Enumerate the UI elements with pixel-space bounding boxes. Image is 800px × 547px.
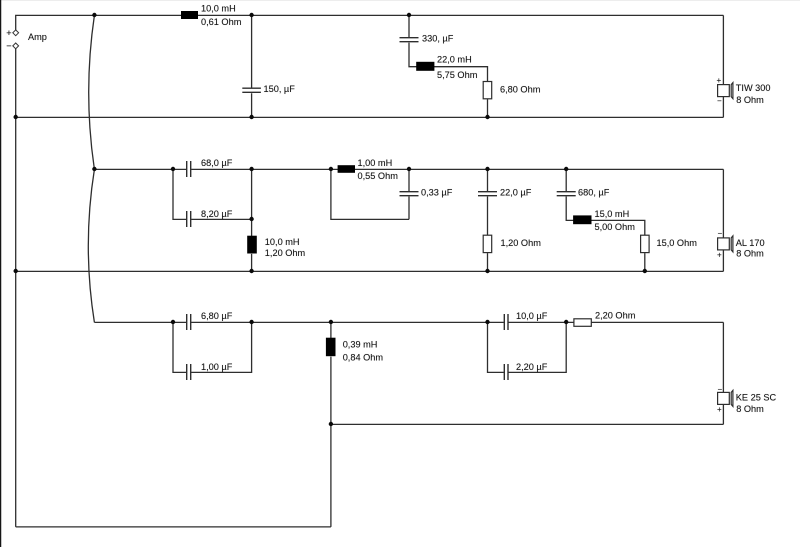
resistor 1,20 Ohm (midrange shunt RC): [483, 235, 541, 271]
capacitor 680 µF (midrange RLC notch): [557, 169, 645, 235]
wire right vertical tweeter branch: [722, 322, 724, 424]
node tweeter rail / 0,39mH: [329, 320, 333, 324]
svg-text:8 Ohm: 8 Ohm: [736, 95, 764, 105]
node top rail / curve junction: [92, 13, 96, 17]
node mid rail / 680µF: [564, 167, 568, 171]
capacitor 22,0 µF (midrange shunt RC): [478, 169, 532, 235]
node top rail / 150µF: [249, 13, 253, 17]
svg-text:TIW 300: TIW 300: [736, 83, 771, 93]
wire curved feed from top rail down to mid and tweeter rails: [88, 15, 94, 322]
inductor 10,0 mH 1,20 Ohm (midrange shunt): [247, 169, 305, 271]
svg-text:22,0 µF: 22,0 µF: [500, 188, 532, 198]
svg-text:8,20 µF: 8,20 µF: [201, 209, 233, 219]
svg-text:0,84 Ohm: 0,84 Ohm: [343, 353, 384, 363]
inductor 22,0 mH 5,75 Ohm (woofer RLC notch): [416, 55, 477, 81]
svg-text:−: −: [718, 385, 723, 394]
svg-text:68,0 µF: 68,0 µF: [201, 158, 233, 168]
wire tweeter return rail: [331, 423, 724, 425]
capacitor 6,80 µF (tweeter series): [187, 311, 233, 330]
wire top rail from Amp+ to right vertical: [16, 15, 724, 30]
node mid return / 10mH: [249, 269, 253, 273]
svg-text:0,55 Ohm: 0,55 Ohm: [358, 171, 399, 181]
node tweeter return / shunt vertical: [329, 422, 333, 426]
svg-text:680, µF: 680, µF: [578, 188, 610, 198]
svg-text:+: +: [717, 405, 722, 414]
capacitor 2,20 µF (parallel with 10,0 µF): [488, 322, 567, 380]
svg-text:6,80 µF: 6,80 µF: [201, 311, 233, 321]
svg-text:15,0 Ohm: 15,0 Ohm: [657, 238, 698, 248]
capacitor 1,00 µF (parallel with 6,80 µF): [173, 322, 252, 380]
svg-text:15,0 mH: 15,0 mH: [595, 209, 630, 219]
svg-text:+: +: [717, 250, 722, 259]
node woofer return / amp minus: [14, 115, 18, 119]
node woofer return / 6,80 Ohm: [485, 115, 489, 119]
capacitor 8,20 µF (parallel with 68,0 µF): [173, 169, 252, 227]
svg-text:5,00 Ohm: 5,00 Ohm: [595, 222, 636, 232]
wire right vertical woofer branch: [722, 15, 724, 117]
svg-text:1,20 Ohm: 1,20 Ohm: [265, 248, 306, 258]
svg-text:5,75 Ohm: 5,75 Ohm: [437, 70, 478, 80]
svg-text:2,20 Ohm: 2,20 Ohm: [595, 311, 636, 321]
node mid rail / 68µF left: [171, 167, 175, 171]
inductor 0,39 mH 0,84 Ohm (tweeter shunt): [326, 322, 383, 362]
Amp + terminal: [13, 30, 19, 36]
svg-text:10,0 µF: 10,0 µF: [516, 311, 548, 321]
svg-text:AL 170: AL 170: [736, 238, 765, 248]
inductor 1,00 mH 0,55 Ohm (midrange series): [338, 158, 399, 181]
wire woofer return rail: [16, 116, 724, 118]
inductor L1 10,0 mH 0,61 Ohm (woofer series): [181, 4, 242, 28]
svg-text:KE 25 SC: KE 25 SC: [736, 393, 777, 403]
Amp - terminal: [13, 43, 19, 49]
wire bottom rail: [16, 526, 331, 528]
node mid return / 1,20 Ohm: [485, 269, 489, 273]
svg-text:1,20 Ohm: 1,20 Ohm: [501, 238, 542, 248]
speaker KE 25 SC (tweeter): [717, 385, 777, 414]
node top rail / 330µF branch: [407, 13, 411, 17]
resistor 2,20 Ohm (tweeter series): [574, 311, 636, 327]
inductor 15,0 mH 5,00 Ohm (midrange RLC notch): [573, 209, 635, 232]
wire Amp minus vertical down left side: [15, 49, 17, 527]
wire midrange rail: [94, 168, 723, 170]
node mid rail / 22µF: [485, 167, 489, 171]
wire tweeter rail: [94, 321, 723, 323]
node 8,20µF loop / 10mH shunt: [249, 217, 253, 221]
wire midrange return rail: [16, 270, 724, 272]
speaker AL 170 (midrange): [717, 229, 765, 259]
node tweeter rail / 6,8µF left: [171, 320, 175, 324]
capacitor 68,0 µF (midrange series): [187, 158, 233, 177]
svg-text:8 Ohm: 8 Ohm: [736, 249, 764, 259]
svg-text:10,0 mH: 10,0 mH: [201, 4, 236, 14]
svg-text:10,0 mH: 10,0 mH: [265, 237, 300, 247]
svg-text:22,0 mH: 22,0 mH: [437, 55, 472, 65]
node tweeter rail / 10µF right: [564, 320, 568, 324]
svg-text:+: +: [6, 28, 11, 38]
svg-text:6,80 Ohm: 6,80 Ohm: [500, 85, 541, 95]
svg-text:330, µF: 330, µF: [422, 34, 454, 44]
node mid rail / 1,00mH left: [329, 167, 333, 171]
svg-text:0,33 µF: 0,33 µF: [421, 188, 453, 198]
speaker TIW 300 (woofer): [717, 76, 771, 106]
svg-text:2,20 µF: 2,20 µF: [516, 362, 548, 372]
svg-text:0,39 mH: 0,39 mH: [343, 340, 378, 350]
capacitor 150 µF (woofer shunt): [242, 15, 295, 117]
svg-text:0,61 Ohm: 0,61 Ohm: [201, 17, 242, 27]
svg-text:+: +: [717, 76, 722, 85]
svg-text:Amp: Amp: [28, 32, 47, 42]
svg-text:150, µF: 150, µF: [264, 84, 296, 94]
svg-text:−: −: [717, 97, 722, 106]
capacitor 10,0 µF (tweeter series): [504, 311, 547, 330]
node mid return / 15,0 Ohm: [643, 269, 647, 273]
resistor 6,80 Ohm (woofer RLC notch): [483, 82, 540, 118]
svg-text:8 Ohm: 8 Ohm: [736, 404, 764, 414]
capacitor 0,33 µF (parallel with 1,00 mH): [331, 169, 453, 219]
wire right vertical midrange branch: [722, 169, 724, 271]
svg-text:−: −: [718, 229, 723, 238]
node mid rail / 68µF right: [249, 167, 253, 171]
svg-text:1,00 µF: 1,00 µF: [201, 362, 233, 372]
resistor 15,0 Ohm (midrange RLC notch): [641, 235, 698, 271]
capacitor 330 µF (woofer RLC notch): [400, 15, 488, 82]
node mid rail / 0,33µF right: [407, 167, 411, 171]
node tweeter rail / 6,8µF right: [249, 320, 253, 324]
svg-text:−: −: [6, 41, 11, 51]
node mid rail / curve junction: [92, 167, 96, 171]
wire tweeter shunt vertical to return and bottom rails: [330, 357, 332, 527]
svg-text:1,00 mH: 1,00 mH: [358, 158, 393, 168]
node woofer return / 150µF: [249, 115, 253, 119]
node tweeter rail / 10µF left: [485, 320, 489, 324]
node mid return / amp minus: [14, 269, 18, 273]
